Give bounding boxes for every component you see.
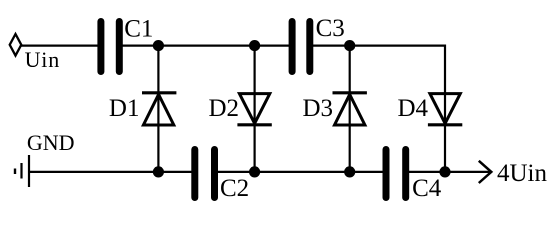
svg-text:Uin: Uin [25,47,60,72]
label C1 [124,16,153,43]
svg-text:GND: GND [27,130,75,155]
label C3 [316,15,345,42]
label D4 [398,95,429,122]
wire: column through D4 [444,94,446,172]
capacitor C3 [292,22,310,72]
wire: C1 to C3 (top rail) [122,44,289,46]
svg-text:D3: D3 [303,95,334,122]
node: junction top of D2 [249,40,260,51]
input terminal Uin (diamond) [10,34,22,56]
label D1 [109,95,140,122]
svg-text:C4: C4 [412,175,442,202]
svg-text:C1: C1 [124,16,153,43]
node: junction bottom of D4 [439,166,450,177]
svg-text:4Uin: 4Uin [497,160,548,187]
label C2 [220,175,249,202]
svg-text:C3: C3 [316,15,345,42]
label C4 [412,175,442,202]
wire: ground to C2 (bottom rail) [29,171,192,173]
svg-text:C2: C2 [220,175,249,202]
node: junction bottom of D1 [153,166,164,177]
wire: column through D1 [157,46,159,172]
diode D4 (pointing down) [428,94,462,125]
label D3 [303,95,334,122]
diode D3 (pointing up) [333,93,367,125]
wire: input to C1 [21,44,98,46]
diode D2 (pointing down) [237,94,271,125]
label GND [27,130,75,155]
wire: column through D2 [254,46,256,172]
output arrow head [479,161,492,183]
capacitor C1 [101,22,119,72]
ground symbol [15,155,29,187]
label 4Uin [497,160,548,187]
svg-text:D4: D4 [398,95,429,122]
label Uin [25,47,60,72]
node: junction bottom of D3 [344,166,355,177]
wire: C4 to output arrow [409,171,491,173]
capacitor C2 [195,150,215,198]
node: junction top of D1 [153,40,164,51]
node: junction bottom of D2 [249,166,260,177]
capacitor C4 [386,150,406,198]
diode D1 (pointing up) [142,93,176,125]
wire: C2 to C4 (bottom rail) [218,171,384,173]
node: junction top of D3 [344,40,355,51]
svg-text:D2: D2 [209,95,240,122]
wire: column through D3 [349,46,351,172]
svg-text:D1: D1 [109,95,140,122]
label D2 [209,95,240,122]
wire: C3 to top-right corner, down to D4 [313,46,445,95]
